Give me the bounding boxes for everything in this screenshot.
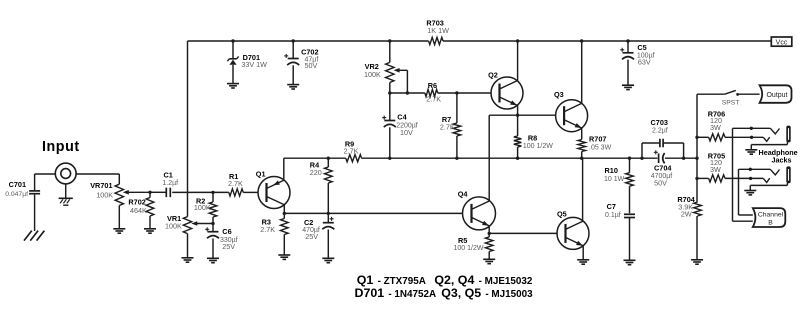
- resistor R3: [283, 213, 285, 218]
- svg-text:464K: 464K: [130, 206, 147, 215]
- svg-text:Q3, Q5 - MJ15003: Q3, Q5 - MJ15003: [441, 286, 533, 300]
- svg-text:D701 - 1N4752A: D701 - 1N4752A: [355, 286, 437, 300]
- transistor Q5: [557, 217, 589, 249]
- svg-text:10V: 10V: [400, 128, 413, 137]
- transistor Q1: [258, 177, 290, 209]
- capacitor C4: [389, 93, 391, 120]
- jack 2 tip contact: [763, 178, 769, 182]
- svg-text:1K 1W: 1K 1W: [427, 26, 449, 35]
- ground (Q5): [577, 259, 589, 261]
- svg-text:100 1/2W: 100 1/2W: [523, 143, 553, 150]
- ground (jack 2): [744, 190, 756, 192]
- ground (C6): [207, 257, 219, 259]
- svg-text:2W: 2W: [681, 209, 692, 218]
- transistor Q3: [556, 100, 588, 132]
- svg-text:C704: C704: [654, 164, 672, 173]
- jack 2 ring line: [739, 168, 771, 170]
- svg-text:R10: R10: [605, 166, 618, 175]
- svg-text:C6: C6: [222, 227, 231, 236]
- resistor R703: [429, 37, 443, 44]
- resistor R7: [456, 93, 458, 123]
- transistor Q2: [491, 77, 523, 109]
- svg-text:Q5: Q5: [557, 209, 567, 218]
- wire output node x697: [695, 157, 698, 160]
- wire Q2 emitter: [517, 105, 519, 115]
- svg-text:25V: 25V: [305, 232, 318, 241]
- wire Q5 emitter: [582, 246, 584, 260]
- svg-text:C4: C4: [397, 113, 407, 122]
- input jack J1: [55, 163, 76, 184]
- svg-text:B: B: [768, 220, 773, 227]
- switch SPST: [697, 93, 725, 95]
- capacitor C702: [292, 39, 295, 42]
- svg-text:100K: 100K: [165, 222, 182, 231]
- svg-text:3W: 3W: [710, 123, 721, 132]
- wire Q5 collector: [582, 158, 584, 221]
- ground (R3): [283, 235, 285, 255]
- svg-text:Output: Output: [766, 92, 787, 99]
- wire jack1 to channel B: [732, 128, 734, 221]
- chassis ground (C701): [24, 231, 32, 241]
- svg-text:2.7K: 2.7K: [344, 146, 359, 155]
- resistor R1: [229, 189, 243, 196]
- resistor R702: [148, 191, 151, 194]
- svg-text:Vcc: Vcc: [776, 39, 788, 46]
- svg-text:100K: 100K: [96, 190, 113, 199]
- svg-text:100K: 100K: [194, 203, 211, 212]
- svg-text:Q4: Q4: [458, 189, 469, 198]
- svg-text:2.7K: 2.7K: [260, 225, 275, 234]
- svg-text:3W: 3W: [710, 165, 721, 174]
- svg-text:Channel: Channel: [758, 212, 784, 219]
- svg-text:33V 1W: 33V 1W: [241, 60, 267, 69]
- earth ground (jack): [65, 184, 67, 198]
- svg-text:0.1µf: 0.1µf: [605, 212, 621, 219]
- ground (C5): [622, 84, 634, 86]
- svg-text:2.7K: 2.7K: [440, 123, 455, 132]
- ground (C2): [322, 257, 334, 259]
- svg-text:2.7K: 2.7K: [426, 95, 441, 104]
- ground (C702): [287, 84, 299, 86]
- ground (VR701): [113, 228, 125, 230]
- ground (VR1): [182, 257, 194, 259]
- resistor R4: [327, 157, 330, 160]
- svg-text:R8: R8: [528, 133, 537, 142]
- ground (R704): [691, 259, 703, 261]
- wire R6 row: [390, 92, 425, 94]
- svg-text:25V: 25V: [222, 242, 235, 251]
- wire Q4 emitter node: [488, 226, 490, 234]
- resistor R707: [578, 140, 586, 152]
- resistor R8: [517, 115, 519, 136]
- resistor R705: [697, 177, 709, 179]
- svg-text:50V: 50V: [305, 61, 318, 70]
- wire Q3 collector: [581, 41, 583, 103]
- potentiometer VR701: [115, 184, 123, 205]
- resistor R2: [212, 192, 214, 202]
- svg-text:2.7K: 2.7K: [228, 179, 243, 188]
- jack 1 ring line: [733, 127, 771, 129]
- ground (D701): [227, 83, 239, 85]
- svg-text:2.2µf: 2.2µf: [652, 128, 668, 135]
- resistor R5: [488, 233, 490, 237]
- capacitor C703: [640, 157, 643, 160]
- resistor R6: [425, 89, 438, 96]
- svg-text:C703: C703: [651, 118, 668, 127]
- capacitor C5: [626, 39, 629, 42]
- svg-text:Input: Input: [42, 139, 80, 155]
- output connector box: [760, 85, 792, 103]
- potentiometer VR1: [183, 217, 191, 234]
- svg-text:Q3: Q3: [554, 90, 564, 99]
- resistor R706: [697, 136, 709, 138]
- wire Q3 emitter: [581, 128, 583, 140]
- jack 2 body: [786, 166, 790, 183]
- jack 1 sleeve: [751, 144, 787, 146]
- resistor R704: [694, 202, 702, 216]
- wire Q1 emitter up: [283, 158, 285, 180]
- wire C1 to R1: [172, 191, 229, 193]
- svg-text:C2: C2: [304, 218, 313, 227]
- resistor R9: [346, 155, 362, 162]
- Vcc box: [771, 37, 792, 46]
- potentiometer VR2: [388, 39, 391, 42]
- ground (jack 1): [745, 149, 757, 151]
- wire jack to VR701: [76, 173, 119, 175]
- svg-text:100 1/2W: 100 1/2W: [454, 245, 484, 252]
- svg-text:C5: C5: [637, 43, 646, 52]
- wire Q1 collector to Q4 base: [284, 212, 462, 214]
- svg-text:50V: 50V: [654, 178, 667, 187]
- resistor R10: [628, 157, 631, 160]
- capacitor C704: [658, 153, 660, 163]
- svg-text:C1: C1: [164, 170, 173, 179]
- capacitor C701: [35, 173, 56, 175]
- capacitor C2: [327, 213, 329, 222]
- wire Q2 emitter node: [489, 114, 556, 116]
- svg-text:0.047µf: 0.047µf: [5, 191, 28, 198]
- svg-text:R707: R707: [589, 135, 606, 144]
- svg-text:220: 220: [310, 168, 322, 177]
- capacitor C7: [624, 213, 635, 215]
- svg-text:C701: C701: [9, 180, 26, 189]
- wire R702 to C1: [150, 191, 166, 193]
- channel B connector: [753, 208, 786, 227]
- svg-text:Q2: Q2: [488, 70, 498, 79]
- ground (C7): [624, 259, 636, 261]
- jack 2 sleeve: [750, 184, 787, 186]
- svg-text:C7: C7: [607, 202, 616, 211]
- wire rail drop to VR1: [187, 41, 189, 217]
- svg-text:R5: R5: [458, 236, 467, 245]
- capacitor C1: [165, 188, 167, 198]
- ground (R702): [144, 228, 156, 230]
- svg-text:Jacks: Jacks: [772, 156, 792, 165]
- svg-text:VR701: VR701: [90, 181, 112, 190]
- wire main y158: [284, 157, 346, 159]
- wire Vcc rail: [188, 40, 429, 42]
- zener diode D701: [231, 39, 234, 42]
- wire Q1 collector down: [283, 205, 285, 214]
- capacitor C6: [212, 224, 214, 232]
- svg-text:Q1: Q1: [256, 170, 266, 179]
- svg-text:R6: R6: [428, 81, 437, 90]
- svg-text:100K: 100K: [364, 70, 381, 79]
- svg-text:1.2µf: 1.2µf: [162, 180, 178, 187]
- svg-text:63V: 63V: [638, 58, 651, 67]
- jack 1 body: [786, 126, 790, 143]
- svg-text:10 1W: 10 1W: [604, 176, 625, 183]
- jack 1 tip contact: [763, 137, 769, 141]
- ground (R5): [483, 258, 495, 260]
- wire Q2 collector: [517, 41, 519, 81]
- svg-text:C702: C702: [301, 48, 318, 57]
- wire jack2 to channel B: [738, 169, 740, 215]
- transistor Q4: [463, 197, 496, 230]
- svg-text:SPST: SPST: [722, 99, 740, 106]
- svg-text:.05 3W: .05 3W: [589, 145, 612, 152]
